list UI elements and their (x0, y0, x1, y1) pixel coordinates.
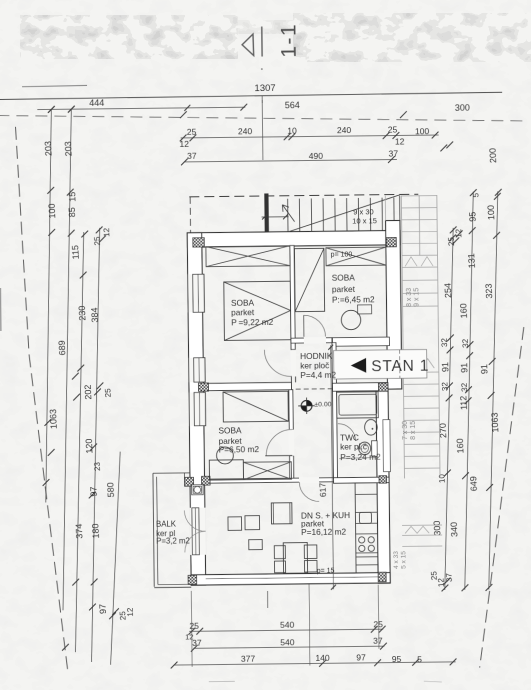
svg-text:25: 25 (373, 619, 383, 629)
svg-text:STAN 1: STAN 1 (371, 358, 429, 376)
svg-text:5: 5 (417, 654, 422, 664)
svg-text:37: 37 (444, 572, 453, 582)
svg-text:37: 37 (389, 148, 399, 158)
svg-text:12: 12 (179, 139, 189, 149)
svg-text:131: 131 (466, 253, 477, 268)
svg-text:25: 25 (187, 127, 197, 137)
svg-text:P=4,4 m2: P=4,4 m2 (300, 370, 336, 380)
svg-text:37: 37 (187, 151, 197, 161)
svg-text:374: 374 (74, 523, 85, 538)
svg-text:25: 25 (189, 621, 199, 631)
svg-text:12: 12 (125, 607, 134, 617)
svg-text:P=6,50 m2: P=6,50 m2 (219, 444, 260, 454)
svg-text:115: 115 (70, 245, 81, 260)
svg-text:91: 91 (440, 362, 450, 372)
svg-text:617: 617 (317, 482, 328, 497)
svg-text:9 x 15: 9 x 15 (413, 288, 420, 307)
svg-text:37: 37 (373, 636, 383, 646)
svg-text:ker ploč: ker ploč (300, 360, 329, 370)
svg-text:1-1: 1-1 (277, 23, 300, 58)
svg-text:p= 15: p= 15 (317, 568, 335, 575)
svg-text:300: 300 (455, 103, 470, 113)
svg-text:P=3,24 m2: P=3,24 m2 (340, 452, 381, 462)
svg-text:12: 12 (454, 228, 463, 238)
svg-text:100: 100 (486, 205, 497, 220)
svg-text:580: 580 (105, 482, 116, 497)
svg-text:384: 384 (89, 307, 100, 322)
svg-text:202: 202 (83, 384, 94, 399)
svg-text:1063: 1063 (48, 409, 59, 429)
svg-text:32: 32 (440, 337, 449, 347)
svg-text:32: 32 (461, 338, 470, 348)
svg-text:240: 240 (238, 126, 253, 136)
svg-text:P=16,12 m2: P=16,12 m2 (301, 527, 346, 538)
svg-text:340: 340 (449, 522, 460, 537)
svg-text:parket: parket (332, 284, 356, 294)
svg-text:p= 100: p= 100 (331, 252, 353, 259)
svg-text:112: 112 (458, 395, 469, 410)
svg-text:97: 97 (356, 652, 366, 662)
svg-text:97: 97 (88, 486, 98, 496)
svg-text:±0.00: ±0.00 (314, 401, 331, 408)
svg-text:12: 12 (395, 136, 405, 146)
svg-text:25: 25 (388, 124, 398, 134)
svg-text:254: 254 (443, 283, 454, 298)
svg-text:ker pl.č: ker pl.č (340, 441, 367, 451)
svg-text:1307: 1307 (254, 83, 275, 94)
svg-text:160: 160 (455, 438, 466, 453)
svg-text:377: 377 (241, 654, 256, 664)
svg-text:parket: parket (231, 307, 255, 317)
svg-text:91: 91 (459, 363, 469, 373)
svg-text:323: 323 (484, 283, 495, 298)
svg-text:95: 95 (467, 212, 477, 222)
svg-text:P:=6,45 m2: P:=6,45 m2 (332, 294, 375, 304)
svg-text:95: 95 (392, 654, 402, 664)
svg-text:7 x 30: 7 x 30 (402, 421, 409, 440)
svg-text:12: 12 (102, 227, 111, 237)
svg-text:4 x 33: 4 x 33 (393, 551, 400, 569)
svg-text:540: 540 (280, 637, 295, 647)
svg-text:85: 85 (67, 207, 77, 217)
svg-text:23: 23 (93, 461, 102, 471)
svg-text:SOBA: SOBA (332, 273, 356, 283)
svg-text:25: 25 (93, 236, 102, 246)
svg-text:8 x 15: 8 x 15 (410, 421, 417, 440)
svg-text:100: 100 (415, 126, 430, 136)
svg-text:100: 100 (47, 203, 58, 218)
svg-text:37: 37 (192, 638, 202, 648)
svg-text:5 x 15: 5 x 15 (400, 551, 407, 569)
svg-text:240: 240 (337, 125, 352, 135)
svg-text:25: 25 (103, 388, 112, 398)
svg-text:BALK: BALK (156, 519, 177, 528)
svg-text:200: 200 (488, 148, 499, 163)
svg-text:32: 32 (440, 381, 449, 391)
svg-text:10 x 15: 10 x 15 (352, 216, 377, 225)
svg-text:120: 120 (84, 438, 95, 453)
svg-text:12: 12 (436, 577, 445, 587)
svg-text:91: 91 (479, 364, 489, 374)
svg-text:444: 444 (89, 98, 104, 108)
svg-text:P =9,22 m2: P =9,22 m2 (231, 317, 274, 327)
svg-text:180: 180 (90, 523, 101, 538)
svg-text:230: 230 (77, 305, 88, 320)
svg-text:564: 564 (285, 100, 300, 110)
svg-text:10: 10 (287, 126, 297, 136)
svg-text:32: 32 (460, 382, 469, 392)
svg-text:203: 203 (63, 141, 74, 156)
svg-text:490: 490 (309, 151, 324, 161)
svg-text:160: 160 (458, 303, 469, 318)
svg-text:P=3,2 m2: P=3,2 m2 (156, 536, 190, 545)
svg-text:689: 689 (57, 340, 68, 355)
svg-text:10: 10 (437, 473, 446, 483)
svg-text:97: 97 (98, 604, 108, 614)
svg-text:203: 203 (43, 141, 54, 156)
svg-text:540: 540 (280, 620, 295, 630)
svg-text:300: 300 (432, 520, 443, 535)
svg-text:1063: 1063 (489, 412, 500, 432)
svg-text:8 x 33: 8 x 33 (406, 288, 413, 307)
svg-text:SOBA: SOBA (218, 425, 242, 435)
svg-text:649: 649 (468, 476, 479, 491)
svg-text:140: 140 (315, 653, 330, 663)
svg-text:9 x 30: 9 x 30 (353, 207, 374, 216)
svg-text:15: 15 (67, 192, 77, 202)
